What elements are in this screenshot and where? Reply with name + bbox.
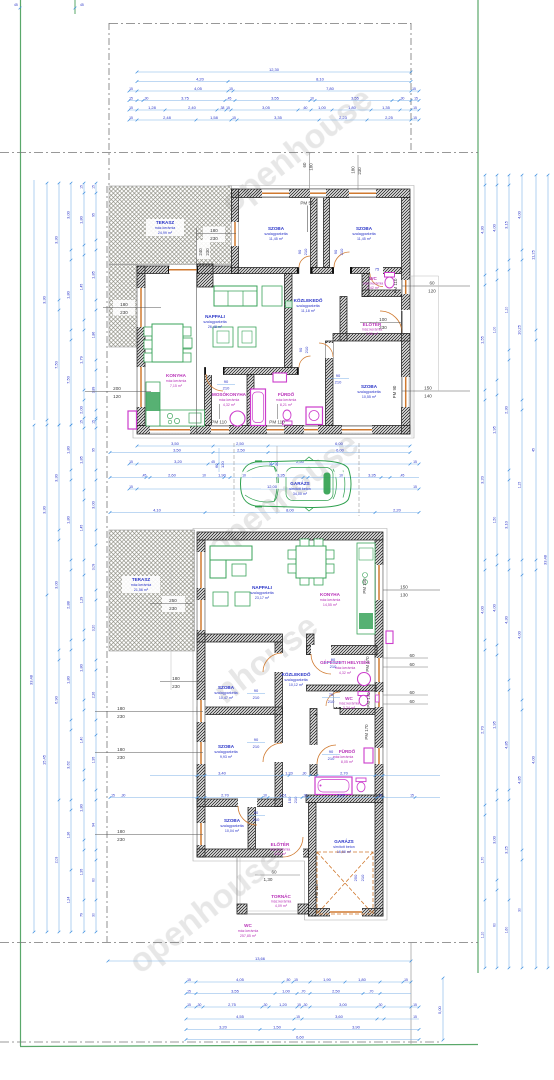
wall eloter west xyxy=(340,297,347,342)
dimension row xyxy=(186,981,411,983)
dimension chain x=47 xyxy=(46,425,48,932)
svg-text:,30: ,30 xyxy=(121,793,126,797)
svg-text:2,00: 2,00 xyxy=(79,405,84,414)
svg-text:8,00: 8,00 xyxy=(286,507,295,512)
door wc xyxy=(334,692,341,707)
svg-text:3,55: 3,55 xyxy=(271,95,280,100)
dimension chain x=34 xyxy=(33,180,35,420)
window szoba2 north xyxy=(349,189,376,197)
svg-text:15: 15 xyxy=(414,96,418,100)
svg-text:SZOBA: SZOBA xyxy=(218,744,235,749)
window szoba1 north xyxy=(262,189,289,197)
exterior wall north lower xyxy=(197,532,383,540)
svg-text:1,80: 1,80 xyxy=(79,215,84,224)
svg-text:90: 90 xyxy=(333,249,338,254)
svg-text:simított beton: simított beton xyxy=(333,845,355,849)
svg-text:,30: ,30 xyxy=(303,793,308,797)
svg-text:3,20: 3,20 xyxy=(174,459,183,464)
svg-text:,30: ,30 xyxy=(400,96,405,100)
svg-text:15: 15 xyxy=(412,87,416,91)
svg-text:szalagparketta: szalagparketta xyxy=(214,691,237,695)
svg-text:15: 15 xyxy=(410,793,414,797)
svg-text:11,18 m²: 11,18 m² xyxy=(301,309,316,313)
svg-text:szalagparketta: szalagparketta xyxy=(357,390,380,394)
dimension row xyxy=(129,488,419,490)
svg-text:23,17 m²: 23,17 m² xyxy=(255,596,270,600)
setback dash-dot vertical right of top block xyxy=(410,23,412,152)
armchairs lower xyxy=(213,592,228,606)
svg-text:3,00: 3,00 xyxy=(339,1002,348,1007)
furniture armchairs upper xyxy=(213,327,233,347)
svg-text:máz.kerámia: máz.kerámia xyxy=(271,900,292,904)
svg-text:180: 180 xyxy=(309,163,314,171)
wall nappali north-west piece xyxy=(137,266,169,274)
svg-text:1,50: 1,50 xyxy=(273,1024,282,1029)
setback dash-dot vertical left of top block xyxy=(108,23,110,186)
svg-text:15: 15 xyxy=(92,420,96,424)
dim 180/230 west lower xyxy=(95,834,203,836)
svg-text:1,95: 1,95 xyxy=(492,425,497,434)
svg-text:3,89: 3,89 xyxy=(92,387,96,394)
svg-text:1,95: 1,95 xyxy=(80,869,84,876)
dimension row xyxy=(137,71,411,73)
svg-text:30: 30 xyxy=(518,908,522,912)
exterior wall north xyxy=(232,189,411,198)
wall nappali-szoba1 xyxy=(197,634,283,642)
svg-text:FÜRDŐ: FÜRDŐ xyxy=(339,748,356,754)
wall szoba1 east xyxy=(311,198,318,268)
svg-text:257,85 m²: 257,85 m² xyxy=(240,934,257,938)
window konyha east PM100 xyxy=(375,565,383,600)
svg-text:15: 15 xyxy=(413,106,417,110)
window wc east xyxy=(375,692,383,707)
svg-text:FÜRDŐ: FÜRDŐ xyxy=(278,391,295,397)
wall gepeszeti south xyxy=(307,685,377,691)
wall corridor east top xyxy=(307,634,315,655)
svg-text:230: 230 xyxy=(117,714,125,719)
wall nappali north-east piece xyxy=(197,266,232,274)
garage door dim leader xyxy=(276,446,278,512)
dim 180/230 terrace top xyxy=(203,227,225,243)
dim 150/140 east xyxy=(402,390,470,392)
svg-text:15: 15 xyxy=(129,460,133,464)
svg-text:75: 75 xyxy=(329,692,334,697)
wall furdo south xyxy=(306,795,383,803)
wall garage west xyxy=(309,803,317,917)
svg-text:2,50: 2,50 xyxy=(237,447,246,452)
svg-text:3,20: 3,20 xyxy=(480,475,485,484)
svg-text:12,30: 12,30 xyxy=(269,67,280,72)
shower furdo xyxy=(306,407,323,425)
svg-text:1,00: 1,00 xyxy=(282,988,291,993)
svg-text:15: 15 xyxy=(413,1015,417,1019)
bathtub furdo xyxy=(251,389,266,426)
svg-text:150: 150 xyxy=(400,585,408,590)
svg-text:PM 110: PM 110 xyxy=(211,420,227,425)
svg-text:,70: ,70 xyxy=(301,989,306,993)
svg-text:3,00: 3,00 xyxy=(91,500,96,509)
svg-text:2,50: 2,50 xyxy=(332,988,341,993)
dimension row xyxy=(186,993,411,995)
window south under shower xyxy=(304,426,318,434)
svg-text:90: 90 xyxy=(254,810,259,815)
svg-text:60: 60 xyxy=(409,662,415,667)
svg-text:1,30: 1,30 xyxy=(264,877,273,882)
dimension chain x=96 xyxy=(95,418,97,932)
dim 250/230 west lower xyxy=(162,596,185,612)
svg-text:,70: ,70 xyxy=(369,989,374,993)
exterior wall south xyxy=(137,426,410,435)
svg-text:15: 15 xyxy=(297,1003,301,1007)
svg-text:máz.kerámia: máz.kerámia xyxy=(166,379,187,383)
svg-text:PM 100: PM 100 xyxy=(362,578,367,594)
svg-text:3,20: 3,20 xyxy=(92,625,96,632)
wall garage south xyxy=(309,909,384,917)
svg-text:2,03: 2,03 xyxy=(55,857,59,864)
door dim 90/210 furdo xyxy=(328,378,349,380)
svg-text:,30: ,30 xyxy=(263,1003,268,1007)
svg-text:250: 250 xyxy=(169,598,177,603)
dimension chain x=71 xyxy=(70,183,72,425)
small wc basin xyxy=(376,695,379,702)
svg-text:3,50: 3,50 xyxy=(173,447,182,452)
tornac pier left xyxy=(237,904,247,914)
svg-text:1,10: 1,10 xyxy=(505,307,509,314)
svg-text:4,00: 4,00 xyxy=(517,630,522,639)
svg-text:2,40: 2,40 xyxy=(188,105,197,110)
svg-text:3,30: 3,30 xyxy=(42,295,47,304)
terrace TERASZ hatch lower xyxy=(109,530,195,651)
svg-text:7,50: 7,50 xyxy=(66,375,71,384)
svg-text:ELŐTÉR: ELŐTÉR xyxy=(271,840,290,847)
svg-text:3,90: 3,90 xyxy=(352,1024,361,1029)
svg-text:1,60: 1,60 xyxy=(505,927,509,934)
svg-text:,45: ,45 xyxy=(400,473,405,477)
svg-text:4,00: 4,00 xyxy=(480,605,485,614)
svg-text:2,48: 2,48 xyxy=(163,115,172,120)
svg-text:3,60: 3,60 xyxy=(335,1014,344,1019)
dim 150/130 east lower xyxy=(383,589,440,591)
svg-text:1,35: 1,35 xyxy=(382,105,391,110)
svg-text:15: 15 xyxy=(187,978,191,982)
svg-text:3,55: 3,55 xyxy=(231,988,240,993)
svg-text:NAPPALI: NAPPALI xyxy=(252,585,272,590)
wall mosokonyha-furdo xyxy=(247,375,254,426)
svg-text:1,85: 1,85 xyxy=(79,455,84,464)
svg-text:15: 15 xyxy=(404,978,408,982)
svg-text:1,45: 1,45 xyxy=(80,284,84,291)
wall furdo west xyxy=(310,709,317,776)
svg-text:90: 90 xyxy=(254,737,259,742)
svg-text:3,20: 3,20 xyxy=(219,1024,228,1029)
svg-text:máz.kerámia: máz.kerámia xyxy=(219,398,240,402)
svg-text:140: 140 xyxy=(424,394,432,399)
window PM50 north xyxy=(310,189,326,197)
svg-text:szalagparketta: szalagparketta xyxy=(220,824,243,828)
svg-text:máz.kerámia: máz.kerámia xyxy=(335,666,356,670)
window gepeszeti east xyxy=(375,658,383,682)
svg-text:szalagparketta: szalagparketta xyxy=(203,320,226,324)
washbasin furdo lower xyxy=(364,748,373,763)
svg-text:1,45: 1,45 xyxy=(80,525,84,532)
wall wc south xyxy=(340,709,375,715)
wall eloter south xyxy=(333,334,410,342)
svg-text:15: 15 xyxy=(111,793,115,797)
svg-text:230: 230 xyxy=(357,167,362,175)
wall furdo-mosokonyha north xyxy=(205,368,299,375)
svg-text:máz.kerámia: máz.kerámia xyxy=(333,755,354,759)
svg-text:24,99 m²: 24,99 m² xyxy=(158,231,173,235)
svg-text:4,10: 4,10 xyxy=(153,507,162,512)
setback dash-dot top xyxy=(109,23,411,25)
svg-text:230: 230 xyxy=(169,606,177,611)
property boundary green left xyxy=(20,0,22,1046)
tv cabinet on wall xyxy=(286,301,293,308)
svg-text:2,60: 2,60 xyxy=(168,472,177,477)
svg-text:210: 210 xyxy=(223,386,230,391)
wall szoba3 west xyxy=(326,341,334,426)
setback dash-dot line horizontal upper xyxy=(0,152,478,154)
svg-text:1,80: 1,80 xyxy=(348,105,357,110)
svg-text:94: 94 xyxy=(92,823,96,827)
svg-text:2,70: 2,70 xyxy=(340,770,349,775)
svg-text:2,26: 2,26 xyxy=(92,692,96,699)
svg-text:21,56 m²: 21,56 m² xyxy=(134,588,149,592)
svg-text:15,45: 15,45 xyxy=(42,754,47,765)
svg-text:SZOBA: SZOBA xyxy=(218,685,235,690)
svg-text:90: 90 xyxy=(331,657,336,662)
toilet furdo xyxy=(283,421,293,425)
svg-text:GARÁZS: GARÁZS xyxy=(290,480,309,486)
svg-text:15: 15 xyxy=(413,116,417,120)
svg-text:60: 60 xyxy=(429,281,435,286)
svg-text:1,58: 1,58 xyxy=(210,115,219,120)
window konyha south xyxy=(150,426,190,434)
svg-text:10,47 m²: 10,47 m² xyxy=(219,696,234,700)
wall szoba1 west xyxy=(232,189,239,274)
svg-text:PM 170: PM 170 xyxy=(364,724,369,740)
svg-text:PM 50: PM 50 xyxy=(300,201,314,206)
svg-text:11,45 m²: 11,45 m² xyxy=(269,237,284,241)
eaves outline upper house xyxy=(133,186,414,439)
dining table lower xyxy=(296,546,326,578)
svg-text:máz.kerámia: máz.kerámia xyxy=(363,282,384,286)
dimension chain x=71 xyxy=(70,425,72,932)
svg-text:1,79: 1,79 xyxy=(79,355,84,364)
svg-text:1,55: 1,55 xyxy=(480,335,485,344)
coffee table lower xyxy=(232,564,246,576)
svg-text:1,50: 1,50 xyxy=(493,517,497,524)
furniture side table xyxy=(262,286,282,306)
window nappali west xyxy=(197,552,205,588)
svg-text:máz.kerámia: máz.kerámia xyxy=(270,848,291,852)
wall konyha-gepeszeti xyxy=(307,646,378,655)
window furdo east xyxy=(375,748,383,764)
entrance door tornac xyxy=(283,849,303,858)
svg-text:1,80: 1,80 xyxy=(79,803,84,812)
svg-text:1,95: 1,95 xyxy=(492,720,497,729)
svg-text:240: 240 xyxy=(198,248,203,256)
svg-text:60: 60 xyxy=(271,870,277,875)
svg-text:3,30: 3,30 xyxy=(42,505,47,514)
svg-text:130: 130 xyxy=(400,593,408,598)
svg-text:,60: ,60 xyxy=(303,106,308,110)
dimension row xyxy=(129,90,419,92)
dimension row xyxy=(137,81,411,83)
wall wc west xyxy=(362,274,369,297)
svg-text:3,30: 3,30 xyxy=(54,473,59,482)
garage dashed floor marking xyxy=(317,852,373,914)
svg-text:210: 210 xyxy=(360,874,365,881)
door szoba2 xyxy=(334,267,350,274)
svg-text:3,35: 3,35 xyxy=(274,115,283,120)
svg-text:KÖZLEKEDŐ: KÖZLEKEDŐ xyxy=(282,671,311,677)
svg-text:7,50: 7,50 xyxy=(54,360,59,369)
svg-text:1,90: 1,90 xyxy=(218,472,227,477)
svg-text:máz.kerámia: máz.kerámia xyxy=(276,398,297,402)
svg-text:3,40: 3,40 xyxy=(218,770,227,775)
svg-text:1,80: 1,80 xyxy=(66,445,71,454)
survey line gray right lower xyxy=(410,942,412,1044)
svg-text:1,20: 1,20 xyxy=(279,1002,288,1007)
svg-text:1,10: 1,10 xyxy=(481,932,485,939)
svg-text:máz.kerámia: máz.kerámia xyxy=(339,702,360,706)
svg-text:GARÁZS: GARÁZS xyxy=(334,838,353,844)
svg-text:3,75: 3,75 xyxy=(181,95,190,100)
svg-text:1,20: 1,20 xyxy=(285,770,294,775)
svg-text:szalagparketta: szalagparketta xyxy=(214,750,237,754)
svg-text:60: 60 xyxy=(409,699,415,704)
wall konyha-mosokonyha xyxy=(205,375,212,426)
dimension chain x=34 xyxy=(33,425,35,932)
svg-text:15: 15 xyxy=(129,485,133,489)
svg-text:3,30: 3,30 xyxy=(54,235,59,244)
dimension chain x=96 xyxy=(95,183,97,425)
corner tick marks top-left xyxy=(19,7,22,10)
eaves outline lower house xyxy=(193,529,387,921)
svg-text:2,70: 2,70 xyxy=(221,792,230,797)
dimension row xyxy=(186,1029,419,1031)
dim 60 tornac xyxy=(255,874,300,876)
svg-text:,30: ,30 xyxy=(302,771,307,775)
svg-text:180: 180 xyxy=(210,228,218,233)
window dim 180/230 top leader xyxy=(357,155,359,190)
wall szoba2 south / wc north xyxy=(311,268,402,274)
exterior wall west lower xyxy=(197,540,205,857)
svg-text:1,80: 1,80 xyxy=(66,675,71,684)
svg-text:10: 10 xyxy=(263,793,267,797)
svg-text:,50: ,50 xyxy=(286,978,291,982)
svg-text:90: 90 xyxy=(336,373,341,378)
svg-text:15: 15 xyxy=(413,1003,417,1007)
svg-text:95: 95 xyxy=(92,448,96,452)
furniture sofa upper xyxy=(214,286,257,306)
terrace sliding door xyxy=(169,267,197,273)
svg-text:180: 180 xyxy=(172,676,180,681)
property boundary green right xyxy=(477,0,479,973)
door furdo xyxy=(310,745,318,764)
tornac porch outline xyxy=(236,857,238,914)
property boundary green bottom xyxy=(20,1045,478,1047)
svg-text:1,80: 1,80 xyxy=(79,663,84,672)
svg-text:15: 15 xyxy=(413,460,417,464)
dimension chain x=47 xyxy=(46,183,48,425)
svg-text:1,80: 1,80 xyxy=(66,290,71,299)
svg-text:15: 15 xyxy=(229,87,233,91)
svg-text:4,32 m²: 4,32 m² xyxy=(223,403,236,407)
interior dim row furdo xyxy=(150,775,440,777)
window nappali west 2 xyxy=(197,600,205,630)
kitchen counter upper xyxy=(146,382,160,426)
meter box east lower xyxy=(386,631,393,644)
terrace TERASZ hatch upper xyxy=(109,186,232,265)
wall szoba3 east xyxy=(248,807,256,850)
svg-text:1,15: 1,15 xyxy=(518,482,522,489)
svg-text:180: 180 xyxy=(120,302,128,307)
wall wc south xyxy=(362,290,402,297)
svg-text:210: 210 xyxy=(253,695,260,700)
svg-text:230: 230 xyxy=(120,310,128,315)
svg-text:3,00: 3,00 xyxy=(337,792,346,797)
svg-text:210: 210 xyxy=(328,699,335,704)
svg-text:230: 230 xyxy=(205,248,210,256)
dim 200/120 west xyxy=(85,391,151,393)
svg-text:WC: WC xyxy=(244,923,252,928)
sofa corner lower xyxy=(210,546,252,560)
room label TERASZ lower xyxy=(122,576,160,593)
exterior wall south main xyxy=(197,849,309,857)
svg-text:,30: ,30 xyxy=(197,1003,202,1007)
meter box west xyxy=(128,411,137,429)
svg-text:6,00: 6,00 xyxy=(336,447,345,452)
svg-text:15: 15 xyxy=(80,420,84,424)
svg-text:210: 210 xyxy=(253,744,260,749)
svg-text:TERASZ: TERASZ xyxy=(156,220,175,225)
dimension chain x=485 xyxy=(484,175,486,968)
svg-text:210: 210 xyxy=(330,664,337,669)
svg-text:1,85: 1,85 xyxy=(91,270,96,279)
svg-text:33,48: 33,48 xyxy=(29,674,34,685)
furniture dining table upper xyxy=(152,324,183,362)
svg-text:3,00: 3,00 xyxy=(492,835,497,844)
svg-text:34,00 m²: 34,00 m² xyxy=(293,492,308,496)
dim 180/230 west lower xyxy=(95,752,203,754)
svg-text:3,50: 3,50 xyxy=(171,441,180,446)
svg-text:szalagparketta: szalagparketta xyxy=(264,232,287,236)
svg-text:PM 110: PM 110 xyxy=(269,420,285,425)
svg-text:szalagparketta: szalagparketta xyxy=(352,232,375,236)
svg-text:60: 60 xyxy=(92,878,96,882)
svg-text:4,00: 4,00 xyxy=(531,755,536,764)
vertical dim 5,00 bottom right xyxy=(442,978,444,1040)
svg-text:3,09: 3,09 xyxy=(92,564,96,571)
svg-text:15: 15 xyxy=(294,978,298,982)
dim 180/230 west xyxy=(113,300,135,316)
svg-text:3,56 m²: 3,56 m² xyxy=(366,332,379,336)
svg-text:4,09 m²: 4,09 m² xyxy=(275,904,288,908)
svg-text:15: 15 xyxy=(129,87,133,91)
dimension row xyxy=(110,512,419,514)
svg-text:1,36: 1,36 xyxy=(67,832,71,839)
svg-text:2,42 m²: 2,42 m² xyxy=(367,286,380,290)
svg-text:4,05: 4,05 xyxy=(194,86,203,91)
room label TERASZ upper xyxy=(146,219,184,236)
svg-text:45: 45 xyxy=(211,460,215,464)
exterior wall east lower xyxy=(375,540,383,916)
svg-text:,45: ,45 xyxy=(227,96,232,100)
svg-text:9,93 m²: 9,93 m² xyxy=(220,755,233,759)
svg-text:79: 79 xyxy=(80,913,84,917)
